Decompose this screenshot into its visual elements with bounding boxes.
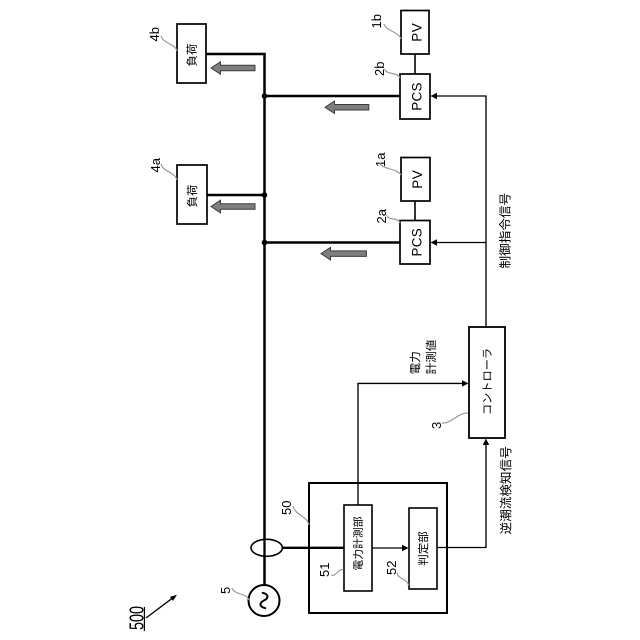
leader 1b (384, 24, 401, 39)
power flow arrow from PCS 2b (325, 101, 369, 114)
power flow arrow toward load 4b (211, 62, 255, 74)
wire - branch to PCS 2a (265, 241, 401, 244)
wire - reverse flow detection signal to controller 3 (437, 444, 486, 548)
leader 5 (232, 588, 249, 600)
power conditioning system 50 box (309, 483, 447, 613)
judging unit 52 box (409, 508, 437, 589)
svg-text:1b: 1b (369, 14, 384, 28)
leader 1a (380, 163, 402, 175)
load 4a label 負荷 (187, 185, 198, 207)
svg-text:PV: PV (409, 23, 424, 42)
PV 1b box (401, 11, 429, 55)
AC generator sine wave (261, 593, 268, 608)
PCS 2b box (400, 74, 430, 119)
arrowhead into PCS 2b bottom (431, 93, 438, 99)
svg-text:4b: 4b (147, 27, 162, 41)
arrowhead into controller left (483, 439, 489, 446)
arrowhead into judging unit 52 (402, 545, 409, 551)
controller 3 label コントローラ (483, 349, 492, 413)
wire - CT tap to power measuring unit 51 (267, 547, 345, 549)
PV 1a box (401, 158, 430, 202)
power flow arrow from PCS 2a (321, 247, 366, 260)
wire - control command signal from controller 3 (436, 96, 486, 327)
svg-text:50: 50 (279, 501, 294, 515)
svg-text:5: 5 (218, 587, 233, 594)
leader 2a (387, 215, 401, 223)
current transformer CT on bus (251, 539, 282, 556)
PCS 2a box (400, 221, 430, 265)
wire - PV 1a to PCS 2a (414, 201, 416, 221)
controller 3 box (469, 327, 505, 438)
svg-text:2b: 2b (372, 62, 387, 76)
arrowhead into PCS 2a bottom (431, 239, 438, 245)
wire - branch to PCS 2b (265, 95, 401, 98)
svg-text:PCS: PCS (409, 82, 424, 110)
AC generator 5 symbol (249, 585, 280, 616)
svg-text:3: 3 (429, 422, 444, 429)
arrowhead into controller top (462, 380, 469, 386)
wire - power measurement value to controller 3 (358, 383, 463, 505)
net label 制御指令信号 (control command signal) (499, 194, 511, 268)
power flow arrow toward load 4a (211, 200, 255, 213)
junction - bus to PCS 2b branch (262, 93, 268, 99)
net label 逆潮流検知信号 (reverse power flow detection signal) (500, 447, 512, 534)
wire - PV 1b to PCS 2b (414, 54, 416, 74)
leader 51 (331, 570, 344, 576)
load 4b label 負荷 (186, 44, 197, 66)
load 4b box (177, 24, 206, 83)
net label 電力計測値 line2 計測値 (426, 340, 437, 374)
svg-text:500: 500 (127, 606, 149, 630)
power measuring unit 51 box (344, 505, 372, 591)
leader 2b (385, 69, 401, 78)
load 4a box (177, 165, 207, 224)
leader 50 (293, 506, 309, 525)
wire - measuring unit 51 to judging unit 52 (372, 547, 404, 549)
svg-text:PV: PV (410, 170, 425, 189)
judging unit 52 label 判定部 (418, 532, 429, 566)
leader 52 (397, 573, 409, 586)
wire - bus through CT (263, 539, 265, 557)
leader 4a (161, 164, 177, 180)
wire - main distribution bus (206, 54, 265, 585)
figure number arrow (146, 598, 173, 618)
leader 4b (161, 36, 177, 51)
junction - bus to load 4a branch (262, 192, 268, 198)
junction - bus to PCS 2a branch (262, 240, 268, 246)
svg-text:PCS: PCS (409, 228, 424, 256)
figure number underline (143, 607, 145, 631)
power measuring unit 51 label 電力計測部 (353, 517, 363, 570)
leader 3 (442, 413, 468, 423)
net label 電力計測値 line1 電力 (410, 352, 421, 373)
wire - branch to load 4a (207, 194, 265, 197)
svg-text:51: 51 (317, 563, 332, 577)
